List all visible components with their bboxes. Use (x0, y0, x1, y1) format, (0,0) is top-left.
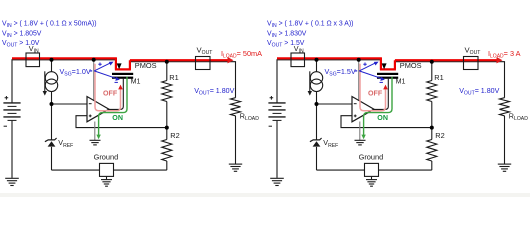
svg-text:R1: R1 (169, 73, 178, 82)
svg-text:ON: ON (377, 114, 388, 122)
wire: R2 bottom to ground rail (431, 161, 433, 170)
zener diode VREF (310, 138, 322, 142)
current source arrow (44, 71, 46, 92)
op-amp supply from rail (gray) (93, 60, 95, 100)
wire: op-amp output to PMOS gate (109, 79, 123, 110)
red current path: VIN rail through PMOS to VOUT (12, 58, 230, 70)
op-amp U1 triangle (352, 97, 374, 122)
battery (VIN source) plates (3, 102, 20, 104)
node: feedback divider tap (430, 126, 434, 130)
node: rail to op-amp supply (357, 58, 361, 62)
transistor M1 channel bar (377, 73, 398, 75)
red arrowhead at ILOAD (497, 57, 503, 63)
ground under op-amp (355, 139, 366, 141)
ground box stub (106, 176, 108, 179)
battery minus sign (4, 125, 7, 127)
blue arrow to PMOS gate (359, 71, 382, 79)
op-amp U1 triangle (87, 97, 109, 122)
red OFF arrowhead (383, 85, 388, 90)
svg-text:M1: M1 (131, 77, 141, 85)
ground under op-amp (90, 139, 101, 141)
svg-text:PMOS: PMOS (400, 61, 422, 70)
ground reference box (365, 163, 379, 176)
wire: feedback to non-inverting input (341, 116, 432, 128)
transistor M1 gate bar (377, 77, 398, 79)
blue arrow to PMOS source (359, 63, 376, 71)
VOUT terminal box (464, 57, 479, 70)
transistor M1 (PMOS) source arrow (117, 63, 122, 69)
op-amp ground lead (gray) (94, 122, 96, 141)
svg-text:M1: M1 (396, 77, 406, 85)
svg-text:R2: R2 (170, 131, 179, 140)
op-amp supply from rail (gray) (358, 60, 360, 100)
node: rail to current source (50, 58, 54, 62)
wire: feedback to non-inverting input (76, 116, 167, 128)
wire: R2 bottom to ground rail (166, 161, 168, 170)
wire: inverting input from reference node (52, 103, 88, 105)
op-amp ground lead (gray) (359, 122, 361, 141)
svg-text:ON: ON (112, 114, 123, 122)
node: VOUT rail to R1 (430, 60, 434, 64)
svg-text:OFF: OFF (368, 89, 383, 97)
ground under RLOAD (229, 163, 242, 165)
wire: output rail from PMOS drain to RLOAD corner (395, 62, 505, 98)
wire: battery bottom lead (11, 121, 13, 178)
red current path: VIN rail through PMOS to VOUT (277, 58, 499, 70)
op-amp minus input sign (354, 103, 357, 105)
blue arrow to PMOS source (94, 63, 111, 71)
red arrowhead at ILOAD (228, 57, 234, 63)
wire: RLOAD bottom lead (235, 116, 237, 164)
ground reference box (100, 163, 114, 176)
svg-text:Ground: Ground (359, 152, 384, 161)
blue annotation dash after VSG (90, 70, 93, 72)
wire: battery to VIN rail (left vertical + top rail under red) (277, 60, 381, 103)
ground symbol under ground box (366, 179, 377, 181)
resistor R1 (427, 81, 437, 102)
svg-text:R2: R2 (435, 131, 444, 140)
wire: battery to VIN rail (left vertical + top rail under red) (12, 60, 116, 103)
red OFF path: gate pulled to VIN (360, 64, 386, 111)
wire: rail dip under PMOS (black) (381, 60, 395, 70)
wire: rail to current source (51, 60, 53, 72)
transistor M1 (PMOS) source arrow (382, 63, 387, 69)
wire: output rail from PMOS drain to RLOAD corner (130, 62, 236, 98)
green ON arrowhead (96, 135, 100, 140)
wire: battery bottom lead (276, 121, 278, 178)
blue minus at gate (115, 81, 118, 83)
svg-text:OFF: OFF (103, 89, 118, 97)
green ON arrowhead (361, 135, 365, 140)
ground under battery (270, 177, 284, 179)
node: reference to inverting input (50, 102, 54, 106)
bottom page strip (0, 193, 530, 197)
resistor R1 (162, 81, 172, 102)
wire: RLOAD bottom lead (504, 116, 506, 164)
resistor R2 (162, 140, 172, 162)
transistor M1 gate bar (112, 77, 133, 79)
svg-text:R1: R1 (434, 73, 443, 82)
wire: R1 top lead from rail (431, 62, 433, 81)
wire: R1 bottom to R2 top (431, 102, 433, 140)
green ON path: gate pulled low through op-amp to ground (364, 77, 392, 135)
red OFF path: gate pulled to VIN (95, 64, 121, 111)
op-amp plus input sign (89, 115, 92, 118)
wire: zener to bottom ground rail (316, 147, 318, 170)
green ON path: gate pulled low through op-amp to ground (99, 77, 127, 135)
resistor RLOAD (231, 98, 241, 116)
battery (VIN source) plates (268, 102, 285, 104)
blue minus at gate (380, 81, 383, 83)
ground under battery (5, 177, 19, 179)
wire: bottom ground rail (317, 169, 432, 171)
svg-text:PMOS: PMOS (135, 61, 157, 70)
battery plus sign (5, 96, 9, 100)
wire: current source to VREF zener (51, 91, 53, 140)
wire: inverting input from reference node (317, 103, 353, 105)
blue annotation dash after VSG (355, 70, 358, 72)
node: rail to op-amp supply (92, 58, 96, 62)
current source (bias) double circles (310, 72, 322, 84)
resistor RLOAD (500, 98, 510, 116)
node: feedback divider tap (165, 126, 169, 130)
red OFF arrowhead (118, 85, 123, 90)
blue plus at source (363, 63, 366, 66)
wire: R1 bottom to R2 top (166, 102, 168, 140)
ground under RLOAD (498, 163, 511, 165)
wire: R1 top lead from rail (166, 62, 168, 81)
op-amp plus input sign (354, 115, 357, 118)
wire: op-amp output to PMOS gate (374, 79, 388, 110)
battery plus sign (270, 96, 274, 100)
VIN terminal box (26, 53, 40, 67)
battery minus sign (269, 125, 272, 127)
svg-text:Ground: Ground (94, 152, 119, 161)
resistor R2 (427, 140, 437, 162)
wire: current source to VREF zener (316, 91, 318, 140)
node: VOUT rail to R1 (165, 60, 169, 64)
wire: zener to bottom ground rail (51, 147, 53, 170)
op-amp minus input sign (89, 103, 92, 105)
VIN terminal box (291, 53, 305, 67)
blue arrow to PMOS gate (94, 71, 117, 79)
current source (bias) double circles (45, 72, 57, 84)
wire: bottom ground rail (52, 169, 167, 171)
node: rail to current source (315, 58, 319, 62)
VOUT terminal box (196, 57, 211, 70)
wire: rail dip under PMOS (black) (116, 60, 130, 70)
zener diode VREF (45, 138, 57, 142)
wire: rail to current source (316, 60, 318, 72)
blue plus at source (98, 63, 101, 66)
node: reference to inverting input (315, 102, 319, 106)
transistor M1 channel bar (112, 73, 133, 75)
ground box stub (371, 176, 373, 179)
current source arrow (309, 71, 311, 92)
ground symbol under ground box (101, 179, 112, 181)
